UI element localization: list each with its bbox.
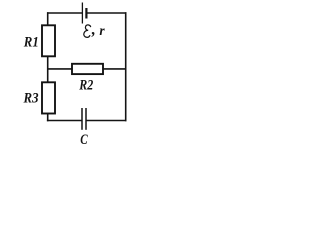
wire middle branch left (junction to R2): [48, 68, 73, 70]
wire bottom-left segment: [47, 120, 82, 122]
svg-text:,: ,: [91, 22, 96, 39]
battery E,r long plate: [81, 3, 83, 24]
resistor R2 box: [72, 64, 103, 74]
battery E,r short plate: [85, 8, 87, 19]
wire top-right segment: [86, 12, 126, 14]
resistor R3 box: [42, 82, 55, 113]
wire right rail: [125, 12, 127, 121]
wire bottom-right segment: [86, 120, 127, 122]
wire middle branch right (R2 to right rail junction): [103, 68, 127, 70]
svg-text:R2: R2: [78, 78, 93, 94]
svg-text:C: C: [80, 132, 88, 148]
resistor R1 box: [42, 25, 55, 56]
wire left middle (R1 to R3): [47, 57, 49, 84]
wire top-left segment: [47, 12, 82, 14]
wire left upper (top wire to R1): [47, 12, 49, 26]
wire left lower (R3 to bottom): [47, 114, 49, 122]
capacitor C left plate: [81, 108, 83, 130]
label script E of E,r (EMF symbol): [84, 25, 91, 37]
svg-text:r: r: [99, 23, 105, 38]
svg-text:R3: R3: [23, 91, 39, 107]
capacitor C right plate: [85, 108, 87, 130]
svg-text:R1: R1: [23, 34, 39, 50]
